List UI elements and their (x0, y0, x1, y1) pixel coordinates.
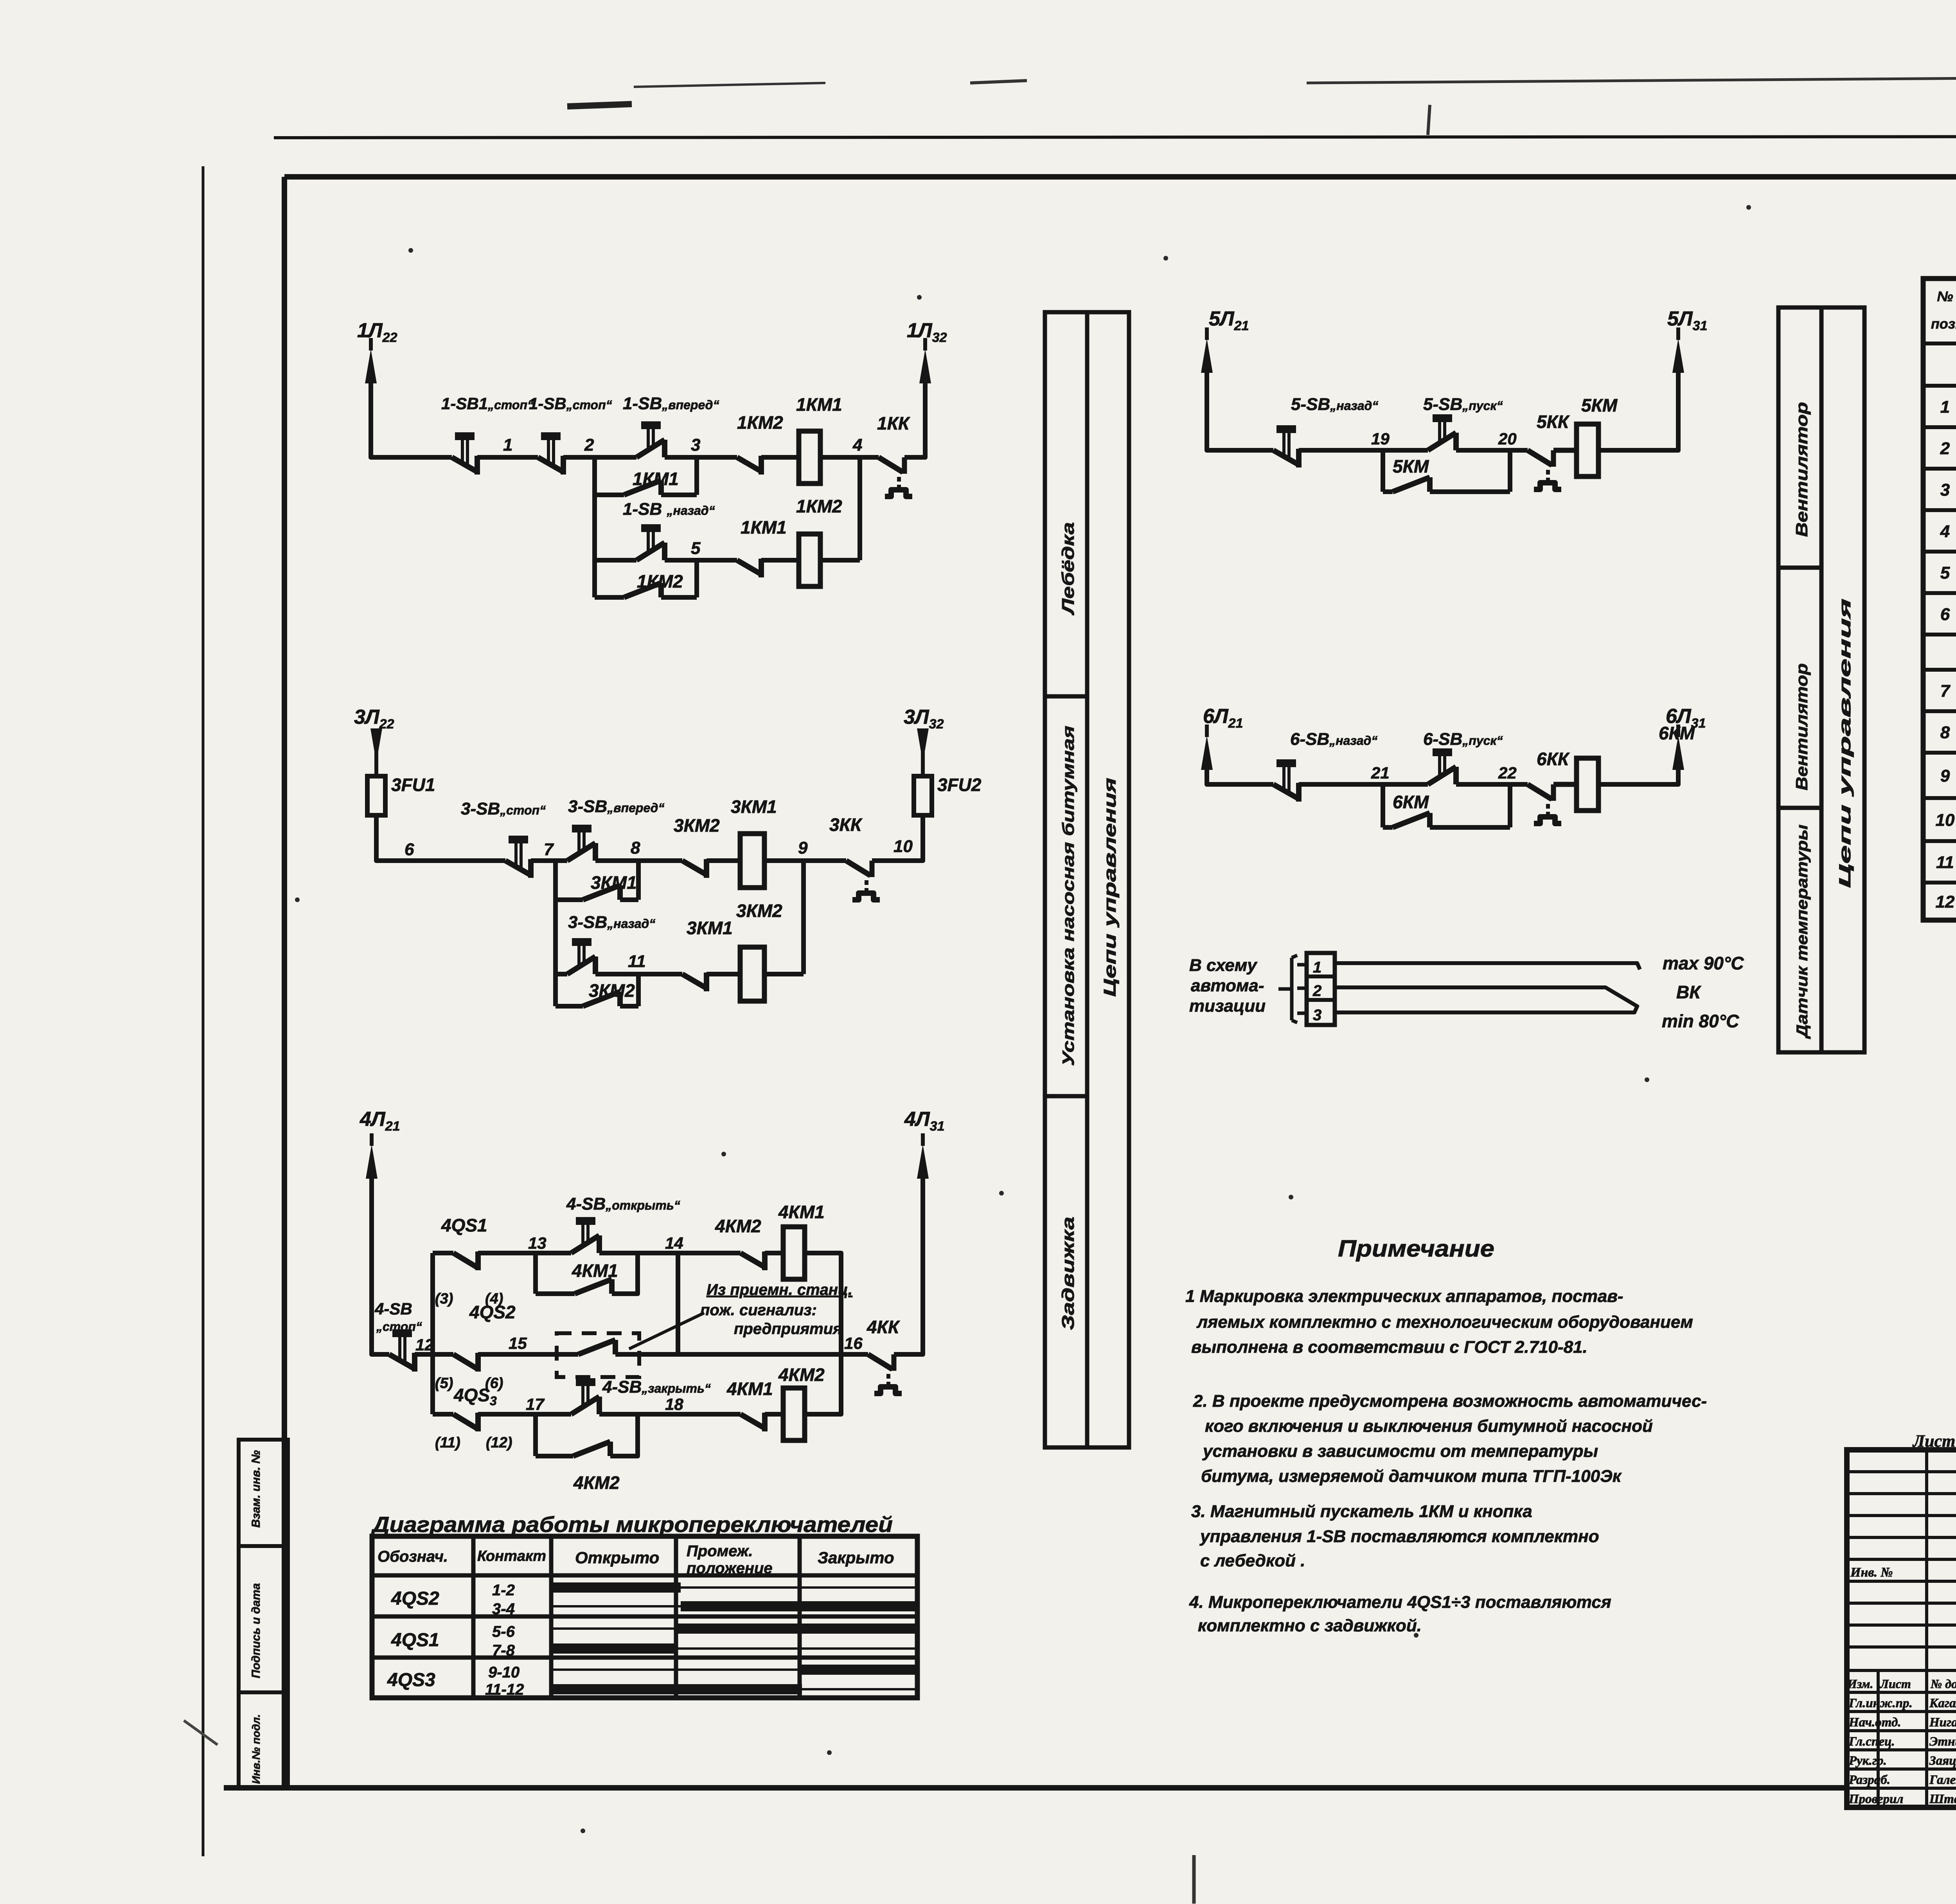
svg-text:max 90°C: max 90°C (1663, 953, 1744, 973)
svg-text:5-6: 5-6 (492, 1623, 515, 1640)
svg-text:Лебёдка: Лебёдка (1059, 522, 1078, 616)
svg-text:Взам. инв. №: Взам. инв. № (250, 1450, 262, 1528)
svg-text:3FU1: 3FU1 (391, 775, 435, 795)
wire: junction vertical (rows) (430, 1253, 435, 1414)
wire: left riser 6Л21 (1207, 763, 1273, 784)
coil 4КМ1 (783, 1227, 805, 1279)
svg-text:с лебедкой .: с лебедкой . (1200, 1551, 1305, 1570)
svg-text:Инв.№ подл.: Инв.№ подл. (250, 1714, 262, 1784)
svg-text:18: 18 (665, 1395, 683, 1413)
svg-text:4КМ2: 4КМ2 (715, 1216, 761, 1236)
svg-text:Цепи управления: Цепи управления (1836, 599, 1854, 888)
wire node15 segment (478, 1352, 578, 1357)
group strip: Лебёдка / Установка насосная битумная / Задвижка (1045, 312, 1087, 1447)
wire: node17 vertical (533, 1414, 538, 1456)
svg-text:21: 21 (1371, 764, 1390, 782)
svg-text:3КМ1: 3КМ1 (687, 918, 733, 938)
svg-text:4QS2: 4QS2 (391, 1588, 439, 1609)
svg-text:4QS2: 4QS2 (469, 1302, 516, 1322)
wire to coil 4КМ2 (765, 1412, 783, 1417)
svg-text:4QS1: 4QS1 (441, 1215, 487, 1235)
svg-text:3FU2: 3FU2 (937, 775, 982, 795)
thermometer terminal box ВК (1307, 953, 1335, 1025)
svg-text:Закрыто: Закрыто (818, 1548, 894, 1567)
svg-text:4КМ1: 4КМ1 (572, 1260, 618, 1281)
wire: node3 vertical (694, 457, 699, 495)
fuse 3FU1 (367, 776, 385, 815)
svg-text:3КМ2: 3КМ2 (674, 815, 720, 836)
svg-text:Кагаловский: Кагаловский (1929, 1696, 1956, 1710)
group strip: Цепи управления (left) (1087, 312, 1129, 1447)
svg-text:4: 4 (852, 435, 862, 455)
svg-text:3КМ1: 3КМ1 (591, 872, 637, 893)
thermal contact 4КК (868, 1354, 892, 1369)
wire node3 segment (665, 455, 737, 460)
wire: left riser 4Л21 (372, 1172, 389, 1354)
svg-text:5: 5 (1940, 563, 1950, 583)
wire: right riser 1Л32 (904, 376, 925, 457)
svg-text:Датчик температуры: Датчик температуры (1794, 825, 1811, 1039)
svg-text:3КМ2: 3КМ2 (589, 980, 635, 1001)
svg-text:Примечание: Примечание (1338, 1235, 1494, 1262)
wire: right riser 6Л31 (1598, 763, 1678, 784)
svg-text:ляемых комплектно с технолог: ляемых комплектно с технологическим обор… (1196, 1312, 1693, 1332)
svg-text:1КК: 1КК (877, 413, 910, 433)
wire node14 segment (599, 1251, 741, 1255)
svg-text:Гл.инж.пр.: Гл.инж.пр. (1848, 1696, 1913, 1710)
pushbutton 5-SB "назад" (1273, 450, 1299, 465)
contact 5КМ (self-hold aux) (1383, 489, 1393, 494)
svg-text:предприятия: предприятия (734, 1320, 842, 1338)
svg-text:1КМ2: 1КМ2 (796, 496, 842, 516)
wire: node20 vertical (1508, 450, 1512, 492)
wire node16 segment (615, 1352, 868, 1357)
svg-text:6КК: 6КК (1537, 749, 1570, 769)
wire to coil 3КМ2 (707, 972, 740, 976)
svg-text:Контакт: Контакт (477, 1548, 546, 1564)
pushbutton 6-SB "пуск" (1428, 767, 1456, 784)
wire: node19 vertical (1381, 450, 1385, 492)
pushbutton 4-SB "стоп" (389, 1354, 415, 1369)
svg-text:10: 10 (1936, 811, 1955, 830)
coil 6КМ (1577, 758, 1598, 811)
svg-text:Обознач.: Обознач. (378, 1548, 448, 1565)
svg-text:11-12: 11-12 (485, 1681, 524, 1698)
wire terminal 3 (bracket side) (1297, 1012, 1307, 1015)
svg-text:Установка насосная битумная: Установка насосная битумная (1059, 726, 1077, 1066)
svg-text:положение: положение (687, 1560, 773, 1577)
svg-text:3КК: 3КК (829, 814, 863, 835)
svg-text:5: 5 (691, 539, 701, 558)
svg-text:11: 11 (628, 952, 646, 971)
svg-text:Изм.: Изм. (1847, 1677, 1873, 1691)
svg-text:Вентилятор: Вентилятор (1792, 402, 1811, 537)
pushbutton 4-SB "закрыть" (571, 1397, 599, 1414)
svg-text:Лист: Лист (1879, 1677, 1911, 1691)
svg-text:2: 2 (1312, 982, 1321, 1000)
pushbutton 3-SB "вперед" (567, 843, 595, 861)
contact 4КМ1 (self-hold aux, open) (536, 1291, 575, 1296)
svg-text:22: 22 (1498, 764, 1517, 782)
svg-text:min 80°C: min 80°C (1662, 1011, 1739, 1031)
svg-text:4: 4 (1940, 522, 1950, 541)
pushbutton 1-SB "стоп" (first) (452, 457, 477, 472)
svg-text:1КМ1: 1КМ1 (796, 394, 842, 415)
wire node20 segment (1456, 448, 1528, 453)
contact 3КМ2 (self-hold aux, reverse) (556, 1004, 583, 1009)
svg-text:9: 9 (1940, 766, 1950, 786)
svg-text:комплектно с задвижкой.: комплектно с задвижкой. (1198, 1616, 1422, 1635)
svg-text:1КМ2: 1КМ2 (637, 571, 683, 592)
wire: right riser 4Л31 (894, 1172, 923, 1354)
pushbutton 1-SB "назад" (595, 558, 636, 563)
annotation: Из приемн. станц. пож. сигнализ. предприятия (629, 1313, 704, 1349)
svg-text:4КМ1: 4КМ1 (778, 1202, 825, 1222)
contact 1КМ1 (self-hold aux) (595, 493, 624, 497)
thermal contact 3КК (846, 861, 870, 876)
svg-text:9-10: 9-10 (488, 1664, 520, 1681)
svg-text:(12): (12) (486, 1435, 512, 1451)
wire to coil 5КМ (1553, 448, 1577, 453)
wire: right riser 5Л31 (1598, 366, 1678, 450)
wire: left riser to main row (376, 815, 505, 861)
svg-text:2. В проекте предусмотрена в: 2. В проекте предусмотрена возможность а… (1193, 1392, 1707, 1411)
contact 3КМ1 (NC interlock, reverse) (682, 974, 707, 988)
wire min contact (1335, 1005, 1638, 1012)
scan artifact lines (page edge) (567, 104, 632, 106)
svg-text:4-SB: 4-SB (374, 1300, 412, 1318)
svg-text:„стоп“: „стоп“ (376, 1320, 422, 1334)
svg-text:4QS1: 4QS1 (391, 1630, 439, 1650)
wire: node4 vertical (858, 457, 862, 560)
svg-text:16: 16 (844, 1334, 863, 1352)
svg-text:1: 1 (1940, 397, 1950, 417)
wire top row to main row (805, 1253, 841, 1354)
svg-text:тизации: тизации (1189, 996, 1266, 1016)
diagram table grid (372, 1536, 917, 1698)
wire: node8 vertical (636, 861, 641, 900)
coil 3КМ1 (740, 834, 764, 888)
contact 4КМ2 (self-hold aux, close) (536, 1454, 573, 1458)
wire node11 segment (595, 972, 682, 976)
svg-text:7-8: 7-8 (492, 1642, 515, 1659)
svg-text:(5): (5) (435, 1375, 453, 1392)
svg-text:Диаграмма работы микроперекл: Диаграмма работы микропереключателей (371, 1512, 893, 1537)
svg-text:ВК: ВК (1676, 982, 1701, 1002)
svg-text:5КМ: 5КМ (1581, 395, 1618, 415)
svg-text:битума, измеряемой датчиком: битума, измеряемой датчиком типа ТГП-100… (1201, 1467, 1622, 1486)
svg-text:1: 1 (1313, 959, 1321, 976)
wire node18 segment (599, 1412, 741, 1417)
group strip: Цепи управления (right) (1821, 307, 1864, 1052)
wire to coil 6КМ (1553, 782, 1577, 787)
contact 3КМ2 (NC interlock) (682, 861, 707, 875)
svg-text:Инв. №: Инв. № (1850, 1565, 1893, 1580)
wire node19 segment (1299, 448, 1428, 453)
svg-text:3. Магнитный пускатель: 3. Магнитный пускатель 1КМ и кнопка (1191, 1502, 1532, 1521)
svg-text:6КМ: 6КМ (1393, 792, 1429, 812)
svg-text:Задвижка: Задвижка (1059, 1217, 1078, 1330)
svg-text:2: 2 (584, 435, 594, 455)
svg-text:3: 3 (691, 435, 700, 455)
svg-text:Из приемн. станц.: Из приемн. станц. (707, 1281, 852, 1298)
wire common contact ВК (1335, 987, 1638, 1007)
svg-text:Этнис: Этнис (1929, 1735, 1956, 1749)
microswitch 4QS3 (433, 1412, 453, 1417)
wire to junction (415, 1352, 433, 1357)
wire node13 segment (478, 1251, 571, 1255)
wire to coil 1КМ2 (761, 558, 799, 563)
svg-text:8: 8 (1940, 723, 1950, 742)
wire node4 segment (820, 455, 879, 460)
coil 1КМ2 (799, 534, 820, 586)
svg-text:7: 7 (544, 840, 554, 859)
svg-text:3: 3 (1940, 480, 1950, 500)
svg-text:Открыто: Открыто (575, 1548, 659, 1567)
wire node10 to right riser (872, 815, 923, 861)
svg-text:кого включения и выключения: кого включения и выключения битумной нас… (1205, 1417, 1653, 1436)
svg-text:20: 20 (1498, 430, 1517, 448)
svg-text:Промеж.: Промеж. (687, 1543, 753, 1560)
wire terminal 2 (bracket side) (1297, 987, 1307, 990)
coil 5КМ (1577, 424, 1598, 476)
microswitch 4QS1 (433, 1251, 453, 1255)
svg-text:(11): (11) (435, 1435, 460, 1451)
wire: node11 vertical (636, 974, 641, 1006)
wire node8 segment (595, 858, 682, 863)
svg-text:4КК: 4КК (867, 1317, 900, 1337)
wire: node21 vertical (1381, 784, 1385, 827)
svg-text:14: 14 (665, 1234, 683, 1252)
pushbutton 6-SB "назад" (1273, 784, 1299, 799)
fuse 3FU2 (914, 776, 932, 815)
thermal contact 6КК (1528, 784, 1552, 799)
drawing frame (284, 174, 1956, 180)
svg-text:поз.: поз. (1931, 316, 1956, 332)
wire node1 segment (477, 455, 538, 460)
pushbutton 5-SB "пуск" (1428, 433, 1456, 450)
coil 3КМ2 (740, 947, 764, 1001)
wire to junction (531, 858, 567, 863)
wire into fuse 3FU1 (374, 728, 378, 776)
svg-text:4КМ2: 4КМ2 (573, 1472, 620, 1493)
svg-text:выполнена в соответствии с: выполнена в соответствии с ГОСТ 2.710-81… (1191, 1338, 1587, 1357)
wire terminal 1 (bracket side) (1297, 963, 1307, 967)
pushbutton 1-SB "вперед" (636, 440, 665, 457)
svg-text:17: 17 (526, 1395, 545, 1413)
microswitch 4QS2 (433, 1352, 453, 1357)
svg-text:№: № (1937, 288, 1953, 304)
svg-text:8: 8 (631, 838, 640, 858)
svg-text:№ докумен.: № докумен. (1930, 1677, 1956, 1691)
wire: node7 junction vertical (553, 861, 558, 1006)
svg-text:Рук.гр.: Рук.гр. (1848, 1754, 1887, 1768)
wire: left riser 1Л22 (371, 376, 452, 457)
thermal contact 5КК (1528, 450, 1552, 465)
svg-text:Штеренжист: Штеренжист (1929, 1792, 1956, 1806)
wire coil to node4 vertical (820, 558, 860, 563)
svg-text:1-2: 1-2 (492, 1582, 515, 1599)
svg-text:7: 7 (1940, 681, 1951, 701)
wire node17 segment (478, 1412, 571, 1417)
wire to coil 3КМ1 (707, 858, 740, 863)
svg-text:19: 19 (1371, 430, 1390, 448)
svg-text:4КМ2: 4КМ2 (778, 1365, 825, 1385)
wire node5 segment (665, 558, 737, 563)
svg-text:установки в зависимости от: установки в зависимости от температуры (1202, 1442, 1598, 1461)
wire: node22 vertical (1508, 784, 1512, 827)
svg-text:3-4: 3-4 (492, 1600, 515, 1618)
svg-text:5КМ: 5КМ (1393, 456, 1429, 476)
wire node9 segment (764, 858, 846, 863)
svg-text:1КМ1: 1КМ1 (633, 469, 679, 489)
wire: node2 junction vertical (592, 457, 597, 597)
svg-text:(3): (3) (435, 1291, 453, 1307)
svg-text:10: 10 (894, 837, 913, 856)
svg-text:Цепи управления: Цепи управления (1100, 778, 1120, 997)
wire node21 segment (1299, 782, 1428, 787)
wire bottom row to main row (805, 1354, 841, 1414)
contact 1КМ2 (self-hold aux, reverse) (595, 595, 624, 600)
thermal contact 1КК (879, 457, 903, 472)
pushbutton 4-SB "открыть" (571, 1235, 599, 1253)
svg-text:управления 1-SB поставл: управления 1-SB поставляются комплектно (1199, 1527, 1599, 1546)
svg-text:автома-: автома- (1191, 976, 1264, 995)
wire max contact (1335, 963, 1640, 969)
svg-text:1 Маркировка электрических: 1 Маркировка электрических аппаратов, по… (1185, 1287, 1623, 1306)
svg-text:пож. сигнализ:: пож. сигнализ: (700, 1302, 817, 1319)
title block outer (1847, 1450, 1956, 1807)
svg-text:1: 1 (503, 435, 512, 455)
svg-text:Нигаль: Нигаль (1929, 1715, 1956, 1730)
contact 3КМ1 (self-hold aux) (556, 897, 583, 902)
svg-text:3КМ2: 3КМ2 (736, 901, 782, 921)
pushbutton 1-SB "стоп" (second) (538, 457, 563, 472)
svg-text:15: 15 (509, 1334, 527, 1352)
wire to 3Л32 arrow (921, 728, 925, 776)
svg-text:Нач.отд.: Нач.отд. (1848, 1715, 1901, 1730)
svg-text:В схему: В схему (1189, 956, 1258, 975)
left margin stamp boxes (239, 1440, 288, 1788)
wire to coil 1КМ1 (761, 455, 799, 460)
svg-text:6: 6 (1940, 605, 1950, 624)
svg-text:6: 6 (405, 840, 414, 859)
contact 1КМ1 (NC interlock, reverse) (737, 560, 761, 574)
title block left grid (1847, 1470, 1956, 1473)
contact 4КМ1 (NC interlock, close) (741, 1414, 765, 1428)
svg-text:13: 13 (528, 1234, 547, 1252)
svg-text:Вентилятор: Вентилятор (1792, 663, 1811, 791)
svg-text:Разраб.: Разраб. (1848, 1773, 1890, 1787)
svg-text:5КК: 5КК (1537, 412, 1570, 432)
pushbutton 3-SB "назад" (556, 972, 567, 976)
svg-text:2: 2 (1940, 439, 1950, 458)
sheet outer edge top (274, 136, 1956, 138)
wire: node9 vertical (801, 861, 806, 974)
contact 6КМ (self-hold aux) (1383, 825, 1393, 830)
wire: node14 vertical (676, 1253, 680, 1354)
wire node22 segment (1456, 782, 1528, 787)
contact 4КМ2 (NC interlock) (741, 1253, 765, 1267)
fire-alarm remote contact (dashed box) (557, 1333, 639, 1377)
svg-text:3: 3 (1313, 1007, 1321, 1024)
wire to node 2 (563, 455, 636, 460)
svg-text:4. Микропереключатели 4QS1÷: 4. Микропереключатели 4QS1÷3 поставляютс… (1189, 1593, 1611, 1612)
pushbutton 3-SB "стоп" (505, 861, 531, 875)
svg-text:4КМ1: 4КМ1 (726, 1379, 773, 1399)
svg-text:Проверил: Проверил (1848, 1792, 1903, 1806)
bracket (1278, 987, 1292, 991)
svg-text:4QS3: 4QS3 (387, 1670, 435, 1690)
svg-text:Заяц: Заяц (1929, 1754, 1956, 1768)
wire: left riser 5Л21 (1207, 366, 1273, 450)
svg-text:11: 11 (1936, 853, 1954, 872)
coil 1КМ1 (799, 431, 820, 484)
svg-text:Подпись и дата: Подпись и дата (250, 1583, 262, 1678)
sheet outer edge left (202, 166, 205, 1856)
svg-text:1КМ1: 1КМ1 (741, 517, 787, 538)
coil 4КМ2 (783, 1388, 805, 1440)
group strip: Вентилятор / Вентилятор / Датчик температуры (1778, 307, 1821, 1052)
wire: node5 vertical (694, 560, 699, 597)
wire to coil 4КМ1 (765, 1251, 783, 1255)
svg-text:9: 9 (798, 838, 808, 858)
svg-text:3КМ1: 3КМ1 (731, 796, 777, 817)
spec table grid (1923, 279, 1956, 920)
wire coil to node9 vertical (764, 972, 804, 976)
contact 1КМ2 (NC interlock) (737, 457, 761, 471)
svg-text:1КМ2: 1КМ2 (737, 412, 783, 433)
wire: node13 vertical (533, 1253, 538, 1294)
svg-text:Гл.спец.: Гл.спец. (1848, 1735, 1895, 1749)
svg-text:Галетко: Галетко (1929, 1773, 1956, 1787)
svg-text:12: 12 (1936, 892, 1955, 912)
